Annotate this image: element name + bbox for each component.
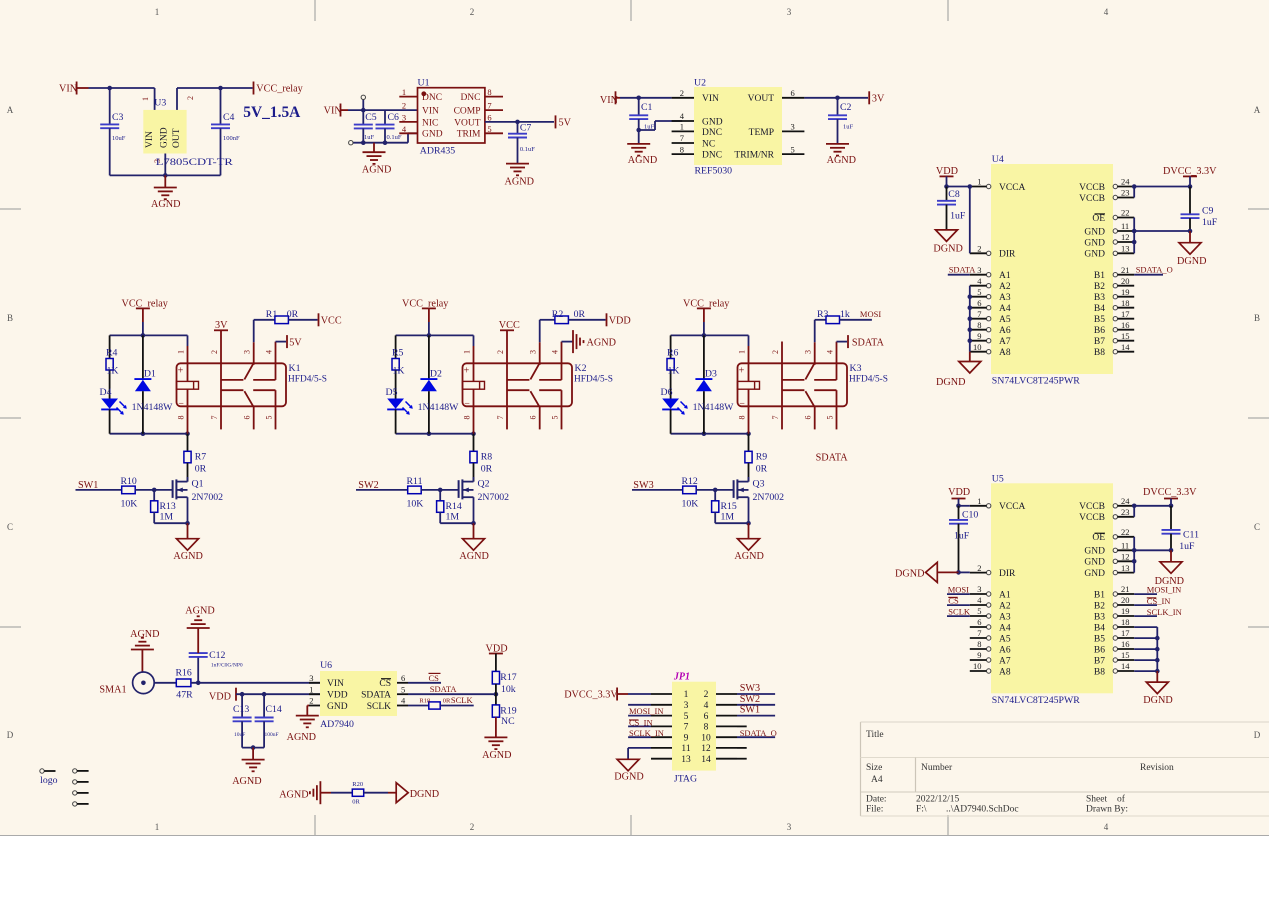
svg-text:C4: C4: [223, 112, 235, 123]
svg-text:24: 24: [1121, 177, 1130, 187]
svg-text:4: 4: [551, 350, 560, 354]
svg-text:D2: D2: [430, 369, 442, 380]
svg-text:MOSI_IN: MOSI_IN: [1147, 584, 1181, 594]
svg-text:Sheet: Sheet: [1086, 795, 1107, 805]
svg-text:R20: R20: [352, 781, 363, 788]
svg-text:14: 14: [1121, 342, 1130, 352]
svg-text:SDATA_O: SDATA_O: [740, 728, 777, 738]
svg-text:10K: 10K: [682, 499, 699, 510]
svg-text:−: −: [178, 399, 184, 410]
svg-text:1: 1: [141, 97, 150, 101]
svg-text:11: 11: [1121, 541, 1129, 551]
svg-text:DVCC_3.3V: DVCC_3.3V: [564, 690, 618, 701]
svg-text:B6: B6: [1094, 326, 1105, 336]
svg-text:L7805CDT-TR: L7805CDT-TR: [156, 157, 234, 168]
svg-text:0R: 0R: [443, 698, 451, 705]
svg-text:4: 4: [1104, 7, 1109, 17]
svg-text:6: 6: [977, 298, 981, 308]
svg-text:6: 6: [401, 673, 405, 683]
svg-text:1N4148W: 1N4148W: [418, 402, 460, 413]
svg-text:9: 9: [684, 733, 689, 743]
svg-text:7: 7: [210, 416, 219, 420]
svg-text:JTAG: JTAG: [674, 774, 697, 785]
svg-text:A6: A6: [999, 645, 1011, 655]
svg-text:A: A: [7, 105, 14, 115]
svg-text:DGND: DGND: [1177, 256, 1206, 267]
svg-text:7: 7: [684, 723, 689, 733]
svg-text:B8: B8: [1094, 667, 1105, 677]
svg-text:R9: R9: [756, 452, 768, 463]
svg-text:21: 21: [1121, 265, 1130, 275]
svg-text:0.1uF: 0.1uF: [387, 134, 402, 141]
svg-text:1: 1: [977, 177, 981, 187]
svg-text:AGND: AGND: [151, 199, 180, 210]
svg-text:1K: 1K: [393, 366, 405, 377]
svg-text:SW3: SW3: [740, 683, 760, 694]
svg-text:D1: D1: [144, 369, 156, 380]
svg-text:0R: 0R: [195, 464, 207, 475]
svg-text:REF5030: REF5030: [695, 166, 733, 177]
svg-text:1N4148W: 1N4148W: [132, 402, 174, 413]
svg-text:SCLK: SCLK: [948, 606, 971, 616]
svg-text:A3: A3: [999, 612, 1011, 622]
svg-text:B4: B4: [1094, 623, 1105, 633]
svg-text:5V: 5V: [559, 117, 572, 128]
svg-text:1uF: 1uF: [364, 134, 375, 141]
svg-text:DGND: DGND: [410, 789, 439, 800]
svg-text:D5: D5: [386, 387, 398, 398]
svg-text:AGND: AGND: [482, 750, 511, 761]
svg-text:GND: GND: [327, 702, 348, 712]
svg-text:2: 2: [496, 350, 505, 354]
svg-text:3: 3: [977, 265, 981, 275]
svg-text:AGND: AGND: [628, 155, 657, 166]
svg-text:AD7940: AD7940: [320, 719, 354, 730]
svg-text:R17: R17: [500, 672, 516, 683]
svg-text:5: 5: [401, 684, 405, 694]
svg-text:13: 13: [1121, 244, 1130, 254]
svg-text:B7: B7: [1094, 337, 1105, 347]
svg-text:GND: GND: [1084, 569, 1105, 579]
svg-text:+: +: [739, 366, 745, 377]
svg-text:+: +: [464, 366, 470, 377]
svg-text:4: 4: [1104, 822, 1109, 832]
svg-text:C5: C5: [365, 112, 377, 123]
svg-text:VOUT: VOUT: [454, 118, 481, 128]
svg-text:VCCB: VCCB: [1079, 183, 1105, 193]
svg-text:1uF: 1uF: [950, 211, 966, 222]
svg-text:A1: A1: [999, 590, 1011, 600]
svg-text:3: 3: [804, 350, 813, 354]
svg-text:R1: R1: [266, 309, 278, 320]
svg-text:VCCB: VCCB: [1079, 513, 1105, 523]
svg-text:VCCA: VCCA: [999, 502, 1026, 512]
svg-text:10: 10: [973, 342, 982, 352]
svg-text:U3: U3: [154, 98, 166, 109]
svg-text:SN74LVC8T245PWR: SN74LVC8T245PWR: [992, 695, 1080, 706]
svg-text:12: 12: [701, 744, 711, 754]
svg-text:4: 4: [704, 701, 709, 711]
svg-text:R13: R13: [160, 501, 176, 512]
svg-text:..\AD7940.SchDoc: ..\AD7940.SchDoc: [946, 805, 1019, 815]
svg-text:47R: 47R: [176, 690, 193, 701]
svg-text:2: 2: [402, 101, 406, 111]
svg-text:AGND: AGND: [232, 776, 261, 787]
svg-text:U1: U1: [418, 78, 430, 89]
svg-text:B6: B6: [1094, 645, 1105, 655]
svg-text:OE: OE: [1092, 533, 1105, 543]
svg-text:+: +: [178, 366, 184, 377]
svg-text:3: 3: [309, 673, 313, 683]
svg-text:11: 11: [1121, 221, 1129, 231]
svg-text:VDD: VDD: [936, 166, 958, 177]
svg-text:DVCC_3.3V: DVCC_3.3V: [1163, 166, 1217, 177]
svg-text:1M: 1M: [160, 512, 174, 523]
svg-text:SDATA: SDATA: [361, 691, 391, 701]
svg-text:5: 5: [977, 287, 981, 297]
svg-text:9: 9: [977, 650, 981, 660]
svg-text:11: 11: [681, 744, 690, 754]
svg-text:Number: Number: [921, 763, 953, 773]
svg-text:1M: 1M: [721, 512, 735, 523]
svg-text:VIN: VIN: [145, 131, 155, 148]
svg-text:Drawn By:: Drawn By:: [1086, 805, 1128, 815]
svg-text:NC: NC: [501, 716, 515, 727]
svg-text:1M: 1M: [446, 512, 460, 523]
svg-text:23: 23: [1121, 507, 1130, 517]
svg-text:HFD4/5-S: HFD4/5-S: [849, 374, 888, 385]
svg-text:TRIM/NR: TRIM/NR: [734, 151, 774, 161]
svg-text:SMA1: SMA1: [99, 685, 126, 696]
svg-text:Q3: Q3: [753, 479, 765, 490]
svg-text:DIR: DIR: [999, 250, 1016, 260]
svg-text:3: 3: [977, 584, 981, 594]
svg-text:GND: GND: [422, 130, 443, 140]
svg-text:8: 8: [463, 416, 472, 420]
svg-text:1nF/C0G/NP0: 1nF/C0G/NP0: [211, 663, 243, 669]
svg-text:3: 3: [787, 7, 792, 17]
svg-text:6: 6: [791, 88, 795, 98]
svg-text:7: 7: [977, 309, 981, 319]
svg-text:Date:: Date:: [866, 795, 887, 805]
svg-text:9: 9: [977, 331, 981, 341]
svg-text:6: 6: [704, 712, 709, 722]
svg-text:AGND: AGND: [587, 337, 616, 348]
svg-text:Revision: Revision: [1140, 763, 1174, 773]
svg-text:DGND: DGND: [895, 569, 924, 580]
svg-text:5V_1.5A: 5V_1.5A: [243, 104, 300, 121]
svg-text:VIN: VIN: [59, 84, 78, 95]
svg-text:10: 10: [701, 733, 711, 743]
svg-text:−: −: [464, 399, 470, 410]
svg-text:D: D: [1254, 730, 1261, 740]
svg-text:7: 7: [487, 101, 491, 111]
svg-text:NC: NC: [702, 139, 715, 149]
svg-text:B4: B4: [1094, 304, 1105, 314]
svg-text:3V: 3V: [872, 93, 885, 104]
svg-text:AGND: AGND: [130, 629, 159, 640]
svg-text:20: 20: [1121, 595, 1130, 605]
svg-text:3: 3: [791, 122, 795, 132]
svg-text:0R: 0R: [287, 309, 299, 320]
svg-text:6: 6: [804, 416, 813, 420]
svg-text:Title: Title: [866, 730, 884, 740]
svg-text:GND: GND: [1084, 558, 1105, 568]
svg-text:C14: C14: [266, 704, 282, 715]
svg-text:C12: C12: [209, 650, 225, 661]
svg-text:3: 3: [402, 112, 406, 122]
svg-text:SCLK_IN: SCLK_IN: [629, 728, 664, 738]
svg-text:1: 1: [738, 350, 747, 354]
svg-text:1: 1: [155, 7, 160, 17]
svg-text:A4: A4: [999, 304, 1011, 314]
svg-text:3: 3: [243, 350, 252, 354]
svg-text:23: 23: [1121, 188, 1130, 198]
svg-text:VCCB: VCCB: [1079, 502, 1105, 512]
svg-text:2: 2: [470, 7, 475, 17]
svg-text:14: 14: [1121, 661, 1130, 671]
svg-text:C7: C7: [520, 123, 532, 134]
svg-text:17: 17: [1121, 309, 1130, 319]
svg-text:AGND: AGND: [827, 155, 856, 166]
svg-text:B8: B8: [1094, 348, 1105, 358]
svg-text:B1: B1: [1094, 271, 1105, 281]
svg-text:100nF: 100nF: [223, 135, 240, 142]
svg-text:7: 7: [771, 416, 780, 420]
svg-text:R18: R18: [419, 698, 430, 705]
svg-text:5: 5: [977, 606, 981, 616]
svg-text:Q1: Q1: [192, 479, 204, 490]
svg-text:2: 2: [680, 88, 684, 98]
svg-text:HFD4/5-S: HFD4/5-S: [288, 374, 327, 385]
svg-text:A6: A6: [999, 326, 1011, 336]
svg-text:0.1uF: 0.1uF: [520, 146, 535, 153]
svg-text:15: 15: [1121, 650, 1130, 660]
svg-text:R4: R4: [106, 348, 118, 359]
svg-text:SDATA: SDATA: [949, 265, 977, 275]
svg-text:MOSI: MOSI: [860, 309, 881, 319]
svg-text:AGND: AGND: [362, 165, 391, 176]
svg-text:File:: File:: [866, 805, 883, 815]
svg-text:7: 7: [680, 133, 684, 143]
svg-text:GND: GND: [1084, 238, 1105, 248]
svg-text:A8: A8: [999, 348, 1011, 358]
svg-text:2: 2: [977, 563, 981, 573]
svg-text:0R: 0R: [756, 464, 768, 475]
svg-text:1N4148W: 1N4148W: [693, 402, 735, 413]
svg-text:U4: U4: [992, 154, 1004, 165]
svg-text:CS: CS: [379, 679, 391, 689]
svg-text:1: 1: [680, 122, 684, 132]
svg-text:4: 4: [265, 350, 274, 354]
svg-text:R8: R8: [481, 452, 493, 463]
svg-text:18: 18: [1121, 298, 1130, 308]
svg-text:DNC: DNC: [702, 151, 722, 161]
svg-text:VDD: VDD: [948, 487, 970, 498]
svg-text:MOSI_IN: MOSI_IN: [629, 706, 663, 716]
svg-text:12: 12: [1121, 552, 1130, 562]
svg-text:DNC: DNC: [460, 93, 480, 103]
svg-text:5: 5: [791, 144, 795, 154]
svg-text:A7: A7: [999, 656, 1011, 666]
svg-text:A5: A5: [999, 634, 1011, 644]
svg-text:DGND: DGND: [933, 244, 962, 255]
svg-text:8: 8: [680, 144, 684, 154]
svg-text:A3: A3: [999, 293, 1011, 303]
svg-text:1k: 1k: [840, 309, 850, 320]
svg-text:1K: 1K: [668, 366, 680, 377]
svg-text:A2: A2: [999, 601, 1011, 611]
svg-text:of: of: [1117, 794, 1126, 805]
svg-text:16: 16: [1121, 639, 1130, 649]
svg-text:AGND: AGND: [279, 790, 308, 801]
svg-text:22: 22: [1121, 527, 1130, 537]
svg-text:4: 4: [826, 350, 835, 354]
svg-text:VIN: VIN: [324, 106, 343, 117]
svg-text:3V: 3V: [215, 320, 228, 331]
svg-text:D3: D3: [705, 369, 717, 380]
svg-text:JP1: JP1: [673, 672, 690, 683]
svg-text:B7: B7: [1094, 656, 1105, 666]
svg-text:Q2: Q2: [478, 479, 490, 490]
svg-text:B1: B1: [1094, 590, 1105, 600]
svg-text:8: 8: [738, 416, 747, 420]
svg-text:C11: C11: [1183, 530, 1199, 541]
svg-text:SDATA_O: SDATA_O: [1136, 265, 1173, 275]
svg-text:7: 7: [496, 416, 505, 420]
svg-text:AGND: AGND: [287, 732, 316, 743]
svg-text:F:\: F:\: [916, 805, 927, 815]
svg-text:5: 5: [487, 124, 491, 134]
svg-text:10uF: 10uF: [112, 135, 126, 142]
svg-text:VDD: VDD: [327, 691, 348, 701]
svg-text:SDATA: SDATA: [852, 337, 885, 348]
svg-text:CS: CS: [948, 595, 959, 605]
svg-text:C13: C13: [233, 704, 249, 715]
svg-text:10K: 10K: [407, 499, 424, 510]
svg-text:0R: 0R: [352, 799, 360, 806]
svg-text:GND: GND: [702, 117, 723, 127]
svg-text:VIN: VIN: [702, 94, 719, 104]
svg-text:AGND: AGND: [185, 606, 214, 617]
svg-text:AGND: AGND: [459, 551, 488, 562]
svg-text:8: 8: [977, 320, 981, 330]
svg-text:1K: 1K: [107, 366, 119, 377]
svg-text:R3: R3: [817, 309, 829, 320]
svg-text:SDATA: SDATA: [816, 453, 849, 464]
svg-text:TRIM: TRIM: [457, 130, 481, 140]
svg-text:1: 1: [155, 822, 160, 832]
svg-text:GND: GND: [1084, 227, 1105, 237]
svg-text:22: 22: [1121, 208, 1130, 218]
svg-text:R11: R11: [407, 476, 423, 487]
svg-text:1: 1: [463, 350, 472, 354]
svg-text:VIN: VIN: [327, 679, 344, 689]
svg-text:16: 16: [1121, 320, 1130, 330]
svg-text:14: 14: [701, 755, 711, 765]
svg-text:5: 5: [684, 712, 689, 722]
svg-text:2N7002: 2N7002: [478, 492, 510, 503]
svg-text:17: 17: [1121, 628, 1130, 638]
svg-text:SN74LVC8T245PWR: SN74LVC8T245PWR: [992, 376, 1080, 387]
svg-text:VOUT: VOUT: [748, 94, 775, 104]
svg-text:SW1: SW1: [740, 705, 760, 716]
svg-text:R16: R16: [176, 668, 192, 679]
svg-text:OUT: OUT: [172, 128, 182, 148]
svg-text:2: 2: [771, 350, 780, 354]
svg-text:DNC: DNC: [702, 128, 722, 138]
svg-text:10: 10: [973, 661, 982, 671]
svg-text:GND: GND: [1084, 547, 1105, 557]
svg-text:DNC: DNC: [422, 93, 442, 103]
svg-text:2: 2: [186, 96, 195, 100]
svg-text:8: 8: [704, 723, 709, 733]
svg-text:HFD4/5-S: HFD4/5-S: [574, 374, 613, 385]
svg-text:1uF: 1uF: [1179, 541, 1195, 552]
svg-text:21: 21: [1121, 584, 1130, 594]
svg-text:C3: C3: [112, 112, 124, 123]
svg-text:8: 8: [487, 87, 491, 97]
svg-text:VDD: VDD: [609, 315, 631, 326]
svg-text:TEMP: TEMP: [749, 128, 774, 138]
svg-text:Size: Size: [866, 763, 882, 773]
svg-text:VCCB: VCCB: [1079, 194, 1105, 204]
svg-text:24: 24: [1121, 496, 1130, 506]
svg-text:A4: A4: [999, 623, 1011, 633]
svg-text:1: 1: [402, 87, 406, 97]
svg-text:19: 19: [1121, 606, 1130, 616]
svg-text:2: 2: [704, 690, 709, 700]
svg-text:D6: D6: [661, 387, 673, 398]
svg-text:D4: D4: [100, 387, 112, 398]
svg-text:C9: C9: [1202, 206, 1214, 217]
svg-text:1: 1: [684, 690, 689, 700]
svg-text:B: B: [7, 313, 13, 323]
svg-text:B: B: [1254, 313, 1260, 323]
svg-text:A8: A8: [999, 667, 1011, 677]
svg-text:DGND: DGND: [614, 772, 643, 783]
svg-text:5: 5: [265, 416, 274, 420]
svg-text:VCC: VCC: [499, 320, 520, 331]
svg-text:1: 1: [977, 496, 981, 506]
svg-text:VCC: VCC: [321, 315, 342, 326]
svg-text:CS_IN: CS_IN: [629, 717, 653, 727]
svg-text:logo: logo: [40, 775, 58, 786]
svg-text:1uF: 1uF: [1202, 217, 1218, 228]
svg-text:VDD: VDD: [209, 692, 231, 703]
svg-text:R19: R19: [500, 706, 516, 717]
svg-text:SDATA: SDATA: [430, 684, 458, 694]
svg-text:0R: 0R: [574, 309, 586, 320]
svg-text:K3: K3: [850, 363, 862, 374]
svg-text:15: 15: [1121, 331, 1130, 341]
svg-text:6: 6: [243, 416, 252, 420]
svg-text:2N7002: 2N7002: [192, 492, 224, 503]
svg-text:2: 2: [977, 244, 981, 254]
svg-text:R2: R2: [552, 309, 564, 320]
svg-text:C6: C6: [388, 112, 400, 123]
svg-text:AGND: AGND: [173, 551, 202, 562]
svg-text:MOSI: MOSI: [948, 584, 969, 594]
svg-text:−: −: [739, 399, 745, 410]
svg-text:C: C: [7, 522, 13, 532]
svg-text:R7: R7: [195, 452, 207, 463]
svg-text:3: 3: [529, 350, 538, 354]
svg-text:U5: U5: [992, 473, 1004, 484]
svg-text:13: 13: [1121, 563, 1130, 573]
svg-text:10K: 10K: [121, 499, 138, 510]
svg-text:A1: A1: [999, 271, 1011, 281]
